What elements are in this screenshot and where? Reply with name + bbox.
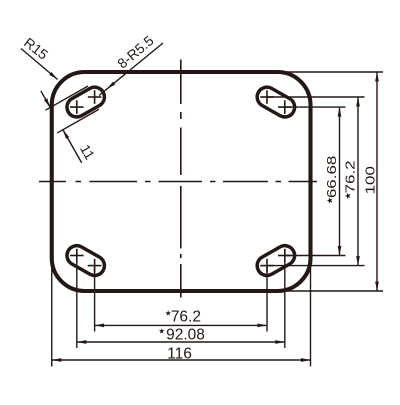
svg-text:116: 116	[167, 345, 192, 362]
svg-text:100: 100	[363, 166, 378, 194]
svg-text:76.2: 76.2	[171, 309, 201, 326]
svg-text:92.08: 92.08	[166, 326, 205, 343]
svg-text:66.68: 66.68	[325, 156, 340, 199]
svg-text:76.2: 76.2	[343, 160, 358, 193]
